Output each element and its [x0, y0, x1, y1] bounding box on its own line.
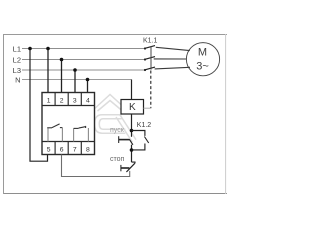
svg-text:3: 3	[73, 97, 77, 104]
svg-text:3~: 3~	[196, 61, 209, 73]
svg-text:L1: L1	[13, 45, 21, 54]
svg-text:L2: L2	[13, 56, 21, 65]
svg-text:2: 2	[60, 97, 64, 104]
svg-text:L3: L3	[13, 66, 21, 75]
svg-text:M: M	[198, 47, 207, 59]
svg-text:7: 7	[73, 146, 77, 153]
svg-text:4: 4	[86, 97, 90, 104]
svg-text:K1.1: K1.1	[143, 38, 158, 45]
svg-text:K: K	[129, 102, 136, 113]
svg-text:стоп: стоп	[110, 156, 125, 163]
svg-text:пуск: пуск	[110, 127, 125, 134]
svg-text:1: 1	[47, 97, 51, 104]
svg-text:5: 5	[47, 146, 51, 153]
svg-text:8: 8	[86, 146, 90, 153]
svg-text:6: 6	[60, 146, 64, 153]
svg-text:N: N	[15, 76, 20, 85]
svg-text:K1.2: K1.2	[137, 122, 152, 129]
